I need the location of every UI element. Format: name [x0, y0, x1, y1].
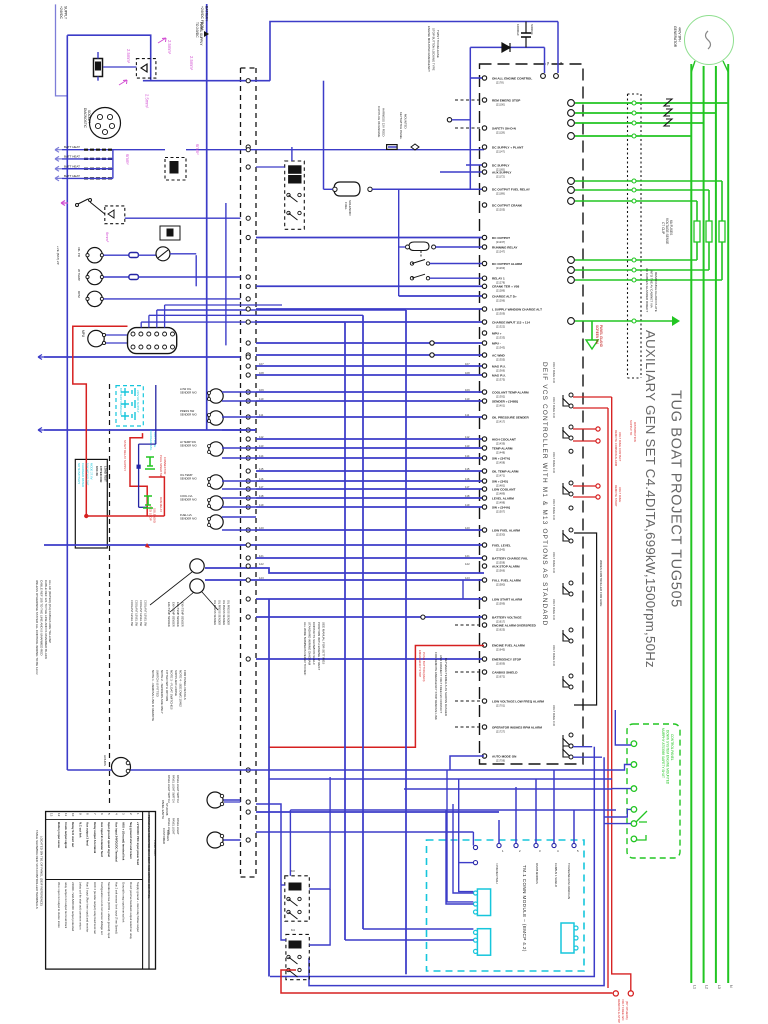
comm module enclosure (cyan dashed): [427, 840, 585, 971]
wire fuse to bus L1: [696, 242, 698, 260]
svg-text:110: 110: [259, 397, 264, 401]
svg-text:2.5mm²: 2.5mm²: [145, 94, 150, 109]
svg-text:VOLT FREE C/O: VOLT FREE C/O: [552, 397, 556, 419]
svg-text:CHARGE INPUT 113 + 114: CHARGE INPUT 113 + 114: [492, 320, 530, 324]
wire long row y430: [44, 429, 256, 431]
svg-text:OIL PRESS SENDER: OIL PRESS SENDER: [227, 600, 231, 625]
svg-text:PANEL LIGHT: PANEL LIGHT: [176, 818, 180, 835]
svg-text:MURPHY AT03069 SAFETY SHUT: MURPHY AT03069 SAFETY SHUT: [661, 728, 665, 778]
svg-text:[21659]: [21659]: [496, 661, 505, 665]
svg-text:NOTE 4 - SEE DWG 10452: NOTE 4 - SEE DWG 10452: [179, 670, 183, 707]
relay K3 (dashed): [285, 876, 310, 921]
wire riser x406: [405, 310, 407, 974]
wire: [256, 447, 484, 449]
svg-text:4 PIN DEUTSCH: 4 PIN DEUTSCH: [495, 863, 499, 884]
svg-text:119: 119: [465, 503, 470, 507]
svg-text:Input ground speed signal: Input ground speed signal: [107, 822, 111, 857]
wire strip to K1: [256, 166, 285, 168]
red terminal 2: [628, 991, 633, 996]
svg-text:108: 108: [259, 371, 264, 375]
wire blue charger drop: [155, 385, 157, 444]
wire red stub 4: [573, 496, 596, 498]
wire battery row 4: [62, 177, 113, 179]
wire N sensing: [575, 135, 691, 137]
svg-text:PANEL EARTH: PANEL EARTH: [161, 800, 165, 819]
svg-text:PANEL LIGHT SWITCH: PANEL LIGHT SWITCH: [176, 775, 180, 803]
controller top pins: [541, 74, 546, 79]
svg-text:ENGINE ALARM OVERSPEED: ENGINE ALARM OVERSPEED: [492, 623, 537, 627]
wire gauge row 1: [104, 254, 129, 256]
wire battery join vertical: [112, 150, 114, 179]
junction diamond: [411, 144, 419, 150]
svg-text:DC SUPPLY: DC SUPPLY: [492, 163, 510, 167]
wire: [256, 308, 484, 310]
svg-text:MOUNTED: MOUNTED: [404, 114, 408, 129]
svg-text:K4: K4: [291, 928, 295, 932]
svg-text:HI TEMP SW: HI TEMP SW: [180, 440, 196, 444]
sender B4: [209, 442, 223, 456]
svg-text:117: 117: [259, 485, 264, 489]
wire wrap B under comm module: [309, 757, 604, 985]
svg-text:K3C 3X: K3C 3X: [95, 466, 99, 476]
table frame: [46, 812, 156, 970]
controller U1 DEIF VCS enclosure (dashed): [480, 64, 584, 764]
svg-text:OIL PRESS SENDER: OIL PRESS SENDER: [213, 600, 217, 625]
gauge M2: [87, 269, 102, 284]
wire to ground: [591, 321, 593, 340]
pressure contacts: [420, 251, 422, 257]
wire pin165 stub: [466, 164, 484, 166]
svg-text:L2: L2: [705, 985, 709, 989]
svg-text:MAG P.U.: MAG P.U.: [492, 364, 506, 368]
connector P3: [207, 792, 223, 808]
svg-text:115: 115: [465, 467, 470, 471]
fuse F4 holder: [94, 59, 103, 77]
svg-text:ENGINE MOUNTED EMERGENCY: ENGINE MOUNTED EMERGENCY: [427, 26, 431, 72]
svg-text:relay output coil output termi: relay output coil output terminal block: [64, 882, 68, 929]
svg-text:SENDER N/O: SENDER N/O: [180, 413, 197, 417]
svg-text:MPU: MPU: [81, 330, 85, 338]
sender B7: [209, 515, 223, 529]
cyan connector CN3: [561, 923, 574, 953]
wire: [256, 497, 484, 499]
wire 12v aux stub: [447, 118, 451, 122]
green panel switch slash: [636, 811, 647, 840]
wire pressure switch row: [436, 246, 484, 248]
svg-text:2.5mm²: 2.5mm²: [189, 56, 194, 71]
svg-text:[21448]: [21448]: [496, 450, 505, 454]
svg-text:[21286]: [21286]: [496, 289, 505, 293]
wire voltage sense row 3: [575, 200, 697, 202]
svg-text:Configuration run A coil senso: Configuration run A coil sensor Voltage …: [100, 882, 104, 935]
svg-text:MAG P.U.: MAG P.U.: [492, 373, 506, 377]
svg-text:PLUG SPEED SW: PLUG SPEED SW: [159, 455, 163, 478]
diagnostic socket J2: [90, 108, 121, 139]
svg-text:TUG BOAT PROJECT TUG505: TUG BOAT PROJECT TUG505: [668, 390, 684, 608]
svg-text:Crank output signal: Crank output signal: [64, 822, 68, 848]
svg-text:BATTERY CHARGER: BATTERY CHARGER: [119, 388, 123, 415]
svg-text:LOW COOLANT: LOW COOLANT: [492, 487, 515, 491]
wire battery positive riser: [56, 4, 68, 96]
svg-text:DC SUPPLY + PLANT: DC SUPPLY + PLANT: [492, 145, 523, 149]
svg-text:B+: B+: [546, 62, 550, 66]
svg-text:CONTROL PANEL: CONTROL PANEL: [670, 734, 674, 761]
svg-text:Neg ground start and return: Neg ground start and return: [129, 822, 133, 859]
wire red stub 2: [573, 440, 596, 442]
svg-text:Wire input coil output to star: Wire input coil output to starter motor: [57, 882, 61, 928]
wire red bottom loop: [281, 970, 613, 993]
svg-text:PANEL LIGHT SWITCH: PANEL LIGHT SWITCH: [167, 775, 171, 803]
engine control panel enclosure (green dashed): [627, 724, 680, 858]
svg-text:SUPPLIED LOOSE: SUPPLIED LOOSE: [174, 670, 178, 696]
svg-text:SURGE: SURGE: [530, 24, 534, 35]
relay contact CR4: [569, 528, 573, 532]
wire: [256, 321, 484, 323]
solenoid L1: [334, 182, 360, 196]
wire voltage sense row 2: [575, 189, 709, 191]
gauge M3: [87, 291, 102, 306]
svg-text:COOLANT LEVEL SW: COOLANT LEVEL SW: [130, 600, 134, 627]
svg-text:FUNCTION: FUNCTION: [153, 840, 157, 856]
svg-text:VOLT FREE C/O: VOLT FREE C/O: [552, 705, 556, 727]
terminal strip pins: [246, 79, 250, 83]
wire switch to bus: [90, 202, 105, 214]
svg-text:DISTRIBUTION: DISTRIBUTION: [633, 422, 637, 442]
wire bus y779: [269, 778, 612, 780]
wire: [256, 391, 484, 393]
wire drops into comm module: [498, 820, 500, 843]
wire bus y80: [143, 80, 270, 82]
arrow marks: [204, 31, 209, 37]
connector P4: [207, 832, 223, 848]
wire fuse to bus L3: [721, 242, 723, 280]
svg-text:[21309]: [21309]: [496, 311, 505, 315]
svg-text:CABLE REF 105 TO THE LINE AND: CABLE REF 105 TO THE LINE AND IS UNARMED…: [39, 580, 43, 656]
svg-text:112: 112: [259, 435, 264, 439]
fuse F5 inline: [129, 253, 139, 258]
svg-text:121: 121: [465, 554, 470, 558]
svg-text:[21417]: [21417]: [496, 419, 505, 423]
svg-text:RUNNING RELAY: RUNNING RELAY: [492, 245, 518, 249]
svg-text:RPM: RPM: [77, 291, 81, 298]
wire riser x345: [344, 322, 346, 940]
note box: [75, 459, 107, 548]
svg-text:K3: K3: [291, 869, 295, 873]
wire contact row 1: [430, 263, 484, 265]
svg-text:STOP BUTTON LOCKING TYPE: STOP BUTTON LOCKING TYPE: [432, 28, 436, 71]
svg-text:AUX STOP ALARM: AUX STOP ALARM: [492, 564, 520, 568]
sender B3: [209, 411, 223, 425]
svg-text:114: 114: [465, 454, 470, 458]
svg-text:[21727]: [21727]: [496, 729, 505, 733]
heater element row 4: [84, 177, 112, 179]
svg-text:BATTERY CHARGE FAIL: BATTERY CHARGE FAIL: [492, 556, 528, 560]
relay contact CR8: [569, 733, 573, 737]
wire pin78 stub: [470, 77, 484, 79]
svg-text:240V AC SUPPLY: 240V AC SUPPLY: [136, 390, 140, 413]
wire: [256, 237, 484, 239]
svg-text:119: 119: [259, 503, 264, 507]
label arrow B: [119, 80, 127, 85]
gauge M1: [87, 248, 102, 263]
svg-text:+24VDC: +24VDC: [59, 6, 63, 19]
sender B5: [209, 475, 223, 489]
relay K8 (dashed): [165, 158, 186, 181]
svg-text:111: 111: [259, 413, 264, 417]
wire: [256, 416, 484, 418]
red terminal 1: [613, 991, 618, 996]
svg-text:SEE MANUAL FOR SETTINGS: SEE MANUAL FOR SETTINGS: [321, 622, 325, 664]
svg-text:Aux input B common feed: Aux input B common feed: [100, 822, 104, 857]
hour meter P2: [112, 758, 131, 777]
wire comm CN2 feeds: [363, 928, 473, 930]
fuse F3: [719, 221, 725, 242]
svg-text:SW + [347A]: SW + [347A]: [492, 456, 510, 460]
wire battery row 1 (main): [62, 149, 165, 151]
svg-text:LOW OIL: LOW OIL: [180, 387, 192, 391]
svg-text:LOW VOLTAGE LOW FREQ ALARM: LOW VOLTAGE LOW FREQ ALARM: [492, 699, 544, 703]
svg-text:[21701]: [21701]: [496, 703, 505, 707]
wire p3 row: [224, 799, 241, 801]
svg-text:[21172]: [21172]: [496, 174, 505, 178]
aux relay box: [160, 226, 180, 240]
connector X2 strip (dotted, AC side): [627, 94, 629, 378]
svg-text:OIL PRESS SENDER: OIL PRESS SENDER: [222, 600, 226, 625]
svg-text:FOR PANEL DETAILS: FOR PANEL DETAILS: [183, 670, 187, 700]
svg-text:[21100]: [21100]: [496, 102, 505, 106]
svg-text:CANBUS 1 SHIELD: CANBUS 1 SHIELD: [554, 863, 558, 887]
wire block to riser 345: [141, 321, 345, 323]
wire block top row a: [157, 309, 406, 311]
svg-text:TM.1 CONN MODULE – (EMCP 4.2): TM.1 CONN MODULE – (EMCP 4.2): [522, 865, 527, 952]
green panel pin 4: [631, 807, 637, 813]
battery charger cyan symbols: [121, 388, 135, 396]
svg-text:AUX 2 (sender output) relay fe: AUX 2 (sender output) relay feed termina…: [93, 882, 97, 934]
svg-text:[21471]: [21471]: [496, 473, 505, 477]
svg-text:SENDER N/O: SENDER N/O: [180, 477, 197, 481]
wire keyswitch drop: [195, 255, 197, 286]
generator G1: [685, 16, 734, 65]
wire L3 sensing: [575, 122, 704, 124]
heater element row 1: [84, 149, 112, 151]
wire: [205, 579, 484, 581]
green panel pin 6: [631, 836, 637, 842]
wire jog row 573: [205, 568, 484, 573]
svg-text:[2178]: [2178]: [496, 80, 504, 84]
svg-text:[21263]: [21263]: [496, 266, 505, 270]
svg-text:OPERATOR WISHES RPM ALARM: OPERATOR WISHES RPM ALARM: [492, 725, 542, 729]
spare circle: [421, 615, 425, 619]
svg-text:OIL TEMP ALARM: OIL TEMP ALARM: [492, 469, 519, 473]
wire K4 out: [309, 889, 330, 945]
wire gauge row 3: [104, 298, 241, 300]
controller pins left edge: [482, 76, 486, 80]
svg-text:INTO THE AV CABINET VIA: INTO THE AV CABINET VIA: [650, 270, 654, 308]
label arrow A: [158, 38, 166, 43]
svg-text:REM EMERG STOP: REM EMERG STOP: [492, 98, 520, 102]
svg-text:115: 115: [259, 467, 264, 471]
svg-text:ALL AC (RATED) (PH) CABLES ARE: ALL AC (RATED) (PH) CABLES ARE YELLOW: [48, 580, 52, 643]
wire comm left feeds: [256, 831, 473, 833]
svg-text:108: 108: [465, 371, 470, 375]
svg-text:CABLE REF 121 TO THE LINE AND: CABLE REF 121 TO THE LINE AND IS UNARMED…: [44, 580, 48, 659]
wire hour meter row: [131, 769, 617, 771]
bracket for customer connection: [574, 533, 597, 705]
wire to green panel pin1: [615, 710, 631, 745]
svg-text:LOCATED ON TB1 OF PANEL (DEIF: LOCATED ON TB1 OF PANEL (DEIF REFERENCE): [40, 836, 44, 906]
svg-text:10000uF: 10000uF: [516, 24, 520, 36]
wire: [256, 374, 484, 376]
keyswitch S2: [156, 247, 170, 261]
relay contact CR2: [569, 425, 573, 429]
svg-text:BATT HEAT: BATT HEAT: [64, 164, 80, 168]
svg-text:120: 120: [259, 526, 264, 530]
svg-text:HARNESS 12V FEED: HARNESS 12V FEED: [382, 108, 386, 136]
svg-text:6mm²: 6mm²: [125, 154, 130, 165]
svg-text:+VE (BAT) 2P: +VE (BAT) 2P: [56, 246, 60, 265]
cyan connector CN2: [477, 929, 490, 956]
green panel pin 1: [631, 741, 637, 747]
svg-text:STANDARD WIRING DIAGRAM: STANDARD WIRING DIAGRAM: [308, 622, 312, 666]
wire: [256, 400, 484, 402]
svg-text:RS485 MODBUS: RS485 MODBUS: [535, 863, 539, 884]
wire riser x363: [362, 315, 364, 929]
comm module left pins: [473, 845, 477, 849]
wire red battery feed: [73, 326, 128, 516]
wire: [256, 557, 484, 559]
wire K4 left: [281, 884, 285, 886]
wire earth link: [575, 320, 672, 322]
svg-text:DC OUTPUT FUEL RELAY: DC OUTPUT FUEL RELAY: [492, 187, 531, 191]
relay K1 (dashed): [285, 161, 305, 229]
wire: [256, 285, 484, 287]
svg-text:SENDER + [348B]: SENDER + [348B]: [492, 399, 518, 403]
svg-text:[21355]: [21355]: [496, 357, 505, 361]
svg-text:AUX SUPPLY: AUX SUPPLY: [492, 170, 512, 174]
svg-text:L3: L3: [717, 985, 721, 989]
svg-text:PANEL LIGHT SWITCH: PANEL LIGHT SWITCH: [172, 775, 176, 803]
svg-text:SWITCH IS FITTED: SWITCH IS FITTED: [156, 670, 160, 698]
wire battery row 3: [62, 168, 113, 170]
CT current transformer T3: [664, 119, 672, 126]
wire cap feed: [544, 47, 546, 73]
svg-text:COOLANT LEVEL SW: COOLANT LEVEL SW: [139, 600, 143, 627]
wire to green panel pin5: [604, 823, 631, 825]
svg-text:[21645]: [21645]: [496, 647, 505, 651]
svg-text:PANEL GLAND: PANEL GLAND: [599, 325, 603, 348]
svg-text:OIL TEMP: OIL TEMP: [180, 473, 193, 477]
svg-text:(relay coil for start out) com: (relay coil for start out) common return: [78, 882, 82, 930]
svg-text:DC OUTPUT: DC OUTPUT: [492, 236, 510, 240]
svg-text:[21530]: [21530]: [496, 532, 505, 536]
svg-text:[21147]: [21147]: [496, 149, 505, 153]
svg-text:CHARGER RATED: CHARGER RATED: [81, 463, 85, 487]
comm module top pins: [497, 843, 501, 847]
svg-text:[21375]: [21375]: [496, 377, 505, 381]
svg-text:Aux input 24VDC/DC Terminal: Aux input 24VDC/DC Terminal: [114, 822, 118, 862]
wire: [256, 529, 484, 531]
svg-text:VOLTAGE SENSE: VOLTAGE SENSE: [665, 218, 669, 244]
svg-text:2.5mm²: 2.5mm²: [167, 40, 172, 55]
wire to green panel pin4: [604, 809, 631, 817]
wire fuse to relay: [103, 66, 136, 68]
wire solenoid row: [372, 188, 484, 190]
svg-text:AUTO MODE ON: AUTO MODE ON: [492, 754, 517, 758]
svg-text:REMOVABLE GLAND PLATE: REMOVABLE GLAND PLATE: [654, 272, 658, 312]
svg-text:Relay output A terminal: Relay output A terminal: [93, 822, 97, 853]
wire main dc bus x207: [206, 4, 208, 430]
svg-text:440V 3PH: 440V 3PH: [678, 27, 682, 42]
svg-text:MODE 27.6V: MODE 27.6V: [90, 463, 94, 480]
svg-text:EMERGENCY STOP: EMERGENCY STOP: [418, 650, 422, 677]
wire red alarm 1: [573, 396, 612, 398]
svg-text:VOLT FREE N/C: VOLT FREE N/C: [621, 999, 625, 1021]
svg-text:110: 110: [465, 397, 470, 401]
wire step x463: [462, 580, 464, 599]
svg-text:CT CLIP: CT CLIP: [661, 222, 665, 234]
svg-text:SENDER N/O: SENDER N/O: [180, 391, 197, 395]
svg-text:[21237]: [21237]: [496, 240, 505, 244]
wire diode drop: [469, 47, 471, 189]
svg-text:[21189]: [21189]: [496, 191, 505, 195]
wire riser x226: [225, 203, 227, 345]
svg-text:LOW START ALARM: LOW START ALARM: [492, 597, 522, 601]
svg-text:RUN RELAY: RUN RELAY: [159, 497, 163, 512]
svg-text:VOLT FREE C/O: VOLT FREE C/O: [552, 452, 556, 474]
svg-text:SAFETY SH-D-N: SAFETY SH-D-N: [492, 126, 517, 130]
fuse F2: [706, 221, 712, 242]
svg-text:[21439]: [21439]: [496, 441, 505, 445]
wire to green panel pin2: [616, 765, 631, 771]
svg-text:[21322]: [21322]: [496, 324, 505, 328]
wire wrap A under comm module: [270, 747, 594, 977]
svg-text:BATT HEAT: BATT HEAT: [64, 174, 80, 178]
svg-text:VOLT FREE CONTACT: VOLT FREE CONTACT: [618, 432, 622, 462]
svg-text:AND CONNECT VOLT FREE N/C CONT: AND CONNECT VOLT FREE N/C CONTACT: [439, 655, 443, 713]
svg-text:KEYSWITCH PANEL: KEYSWITCH PANEL: [399, 112, 403, 140]
svg-text:N.C out link: N.C out link: [78, 822, 82, 838]
capacitor C1: [525, 22, 527, 34]
diode D1: [502, 43, 510, 52]
svg-text:EXH TEMP SENDER: EXH TEMP SENDER: [167, 602, 171, 627]
svg-text:LOW FUEL ALARM: LOW FUEL ALARM: [492, 528, 520, 532]
svg-text:116: 116: [259, 477, 264, 481]
svg-text:HIGH COOLANT: HIGH COOLANT: [492, 437, 516, 441]
svg-text:[21672]: [21672]: [496, 674, 505, 678]
sender B2: [209, 389, 223, 403]
svg-text:Supply ground + start relay fo: Supply ground + start relay follow outpu…: [136, 882, 140, 932]
svg-text:11: 11: [64, 813, 68, 816]
wire contact CR8 to riser: [573, 746, 592, 748]
svg-text:[21247]: [21247]: [496, 249, 505, 253]
wire: [256, 354, 484, 356]
svg-text:AC CABLES GLANDED DIRECT: AC CABLES GLANDED DIRECT: [645, 268, 649, 312]
wire block top row b: [165, 304, 282, 306]
svg-text:VOLT FREE C/O: VOLT FREE C/O: [552, 499, 556, 521]
svg-text:107: 107: [259, 362, 264, 366]
svg-text:Sender/positive (100% + above: Sender/positive (100% + above ground) in…: [107, 882, 111, 938]
wire main feed loop: [67, 35, 150, 80]
svg-text:NOTE 3 - FLOAT SWITCHES: NOTE 3 - FLOAT SWITCHES: [169, 670, 173, 710]
svg-text:[21507]: [21507]: [496, 509, 505, 513]
svg-text:COOLANT TEMP ALARM: COOLANT TEMP ALARM: [492, 390, 529, 394]
wire diode branch: [470, 46, 544, 48]
ground symbol: [586, 340, 598, 349]
wire contact CR9 to riser: [573, 756, 602, 758]
svg-text:BATTERY: BATTERY: [205, 6, 209, 22]
wire: [256, 365, 484, 367]
fuse F7: [387, 145, 398, 150]
